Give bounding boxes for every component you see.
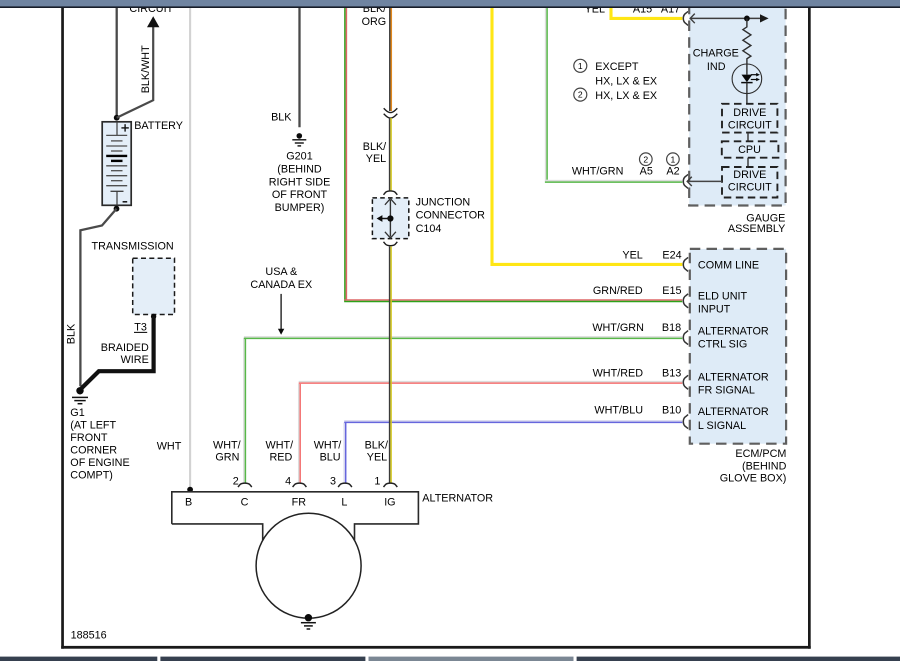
svg-text:BLU: BLU <box>320 452 341 464</box>
svg-text:DRIVE: DRIVE <box>733 169 766 181</box>
connector arc above C104 <box>384 191 398 195</box>
label GAUGE ASSEMBLY <box>728 213 785 235</box>
label WHT/RED B13 <box>593 367 682 379</box>
wire BLK to G201 <box>298 8 300 127</box>
pin arc L (3) <box>338 483 352 487</box>
frame bottom border <box>61 646 811 649</box>
top browser bar <box>0 0 900 8</box>
node junction dot at battery positive <box>114 115 120 121</box>
transmission box <box>133 258 175 314</box>
connector arc E24 <box>683 257 688 271</box>
pin arc FR (4) <box>293 483 307 487</box>
svg-text:2: 2 <box>578 90 583 100</box>
svg-text:2: 2 <box>643 154 648 164</box>
svg-text:(BEHIND: (BEHIND <box>277 164 322 176</box>
svg-text:CIRCUIT: CIRCUIT <box>728 181 772 193</box>
svg-text:GLOVE BOX): GLOVE BOX) <box>720 473 787 485</box>
svg-text:BLK: BLK <box>66 323 78 344</box>
svg-text:ASSEMBLY: ASSEMBLY <box>728 223 785 235</box>
frame left border <box>61 8 64 649</box>
svg-text:ECM/PCM: ECM/PCM <box>735 448 786 460</box>
svg-text:FRONT: FRONT <box>70 432 108 444</box>
pin arc IG (1) <box>384 483 398 487</box>
svg-text:GRN: GRN <box>215 452 239 464</box>
wire BLK/YEL lower segment to alternator IG <box>390 246 392 483</box>
pin arc C (2) <box>238 483 252 487</box>
label T3 <box>134 322 147 334</box>
wire BLK/WHT branch to starter circuit <box>117 27 154 118</box>
battery <box>102 122 131 206</box>
ECM pin function labels <box>698 259 769 432</box>
svg-text:T3: T3 <box>134 322 147 334</box>
svg-text:FR SIGNAL: FR SIGNAL <box>698 384 755 396</box>
svg-text:YEL: YEL <box>366 153 386 165</box>
drive circuit box upper <box>722 104 777 133</box>
ECM/PCM box <box>690 249 786 444</box>
wire cpu to drive2 <box>747 158 749 167</box>
svg-text:OF FRONT: OF FRONT <box>272 189 328 201</box>
node T3 dot <box>151 314 156 319</box>
label WHT <box>157 440 182 452</box>
label JUNCTION CONNECTOR C104 <box>416 197 486 235</box>
svg-text:B13: B13 <box>662 367 681 379</box>
wire WHT/BLU alternator L to B10 <box>344 421 682 483</box>
wire BLK from battery negative to G1 <box>80 209 116 387</box>
alternator body <box>172 492 419 619</box>
ground G1 <box>72 387 88 404</box>
svg-text:HX, LX & EX: HX, LX & EX <box>595 75 657 87</box>
label diagram number 188516 <box>71 630 107 642</box>
svg-text:IG: IG <box>384 496 395 508</box>
svg-text:B18: B18 <box>662 322 681 334</box>
svg-text:HX, LX & EX: HX, LX & EX <box>595 90 657 102</box>
connector arc below C104 <box>384 242 398 246</box>
wire BLK/YEL upper segment <box>390 118 392 190</box>
svg-text:(BEHIND: (BEHIND <box>742 460 787 472</box>
label BLK/YEL <box>363 141 386 165</box>
svg-text:RED: RED <box>270 452 293 464</box>
svg-text:B: B <box>185 496 192 508</box>
label BLK rotated <box>66 323 78 344</box>
labels above alternator pins <box>213 439 388 463</box>
svg-text:1: 1 <box>374 475 380 487</box>
svg-text:IND: IND <box>707 61 726 73</box>
svg-text:BLK/: BLK/ <box>363 141 386 153</box>
label YEL / E24 <box>622 249 681 261</box>
svg-text:L SIGNAL: L SIGNAL <box>698 420 746 432</box>
svg-text:L: L <box>341 496 347 508</box>
svg-text:G201: G201 <box>286 151 312 163</box>
svg-text:TRANSMISSION: TRANSMISSION <box>92 240 174 252</box>
wire YEL stub to A15/A17 <box>611 8 682 19</box>
cpu box <box>722 141 779 157</box>
LED charge indicator <box>732 64 762 104</box>
braided wire T3 to G1 <box>81 317 154 389</box>
svg-text:CHARGE: CHARGE <box>693 48 739 60</box>
wire WHT vertical to alternator B <box>189 8 191 489</box>
frame right border <box>808 8 811 649</box>
svg-text:WHT/RED: WHT/RED <box>593 367 644 379</box>
svg-text:INPUT: INPUT <box>698 303 731 315</box>
svg-text:WHT/GRN: WHT/GRN <box>592 322 644 334</box>
note 1 EXCEPT HX, LX & EX <box>574 59 657 87</box>
label CIRCUIT (cut off at top) <box>129 3 173 15</box>
svg-text:2: 2 <box>233 475 239 487</box>
labels YEL A15 A17 (cut at top) <box>585 3 681 15</box>
svg-text:CORNER: CORNER <box>70 445 117 457</box>
label G201 (BEHIND RIGHT SIDE OF FRONT BUMPER) <box>269 151 331 214</box>
gauge assembly box <box>689 5 785 206</box>
svg-text:WIRE: WIRE <box>121 354 149 366</box>
connector arc B10 <box>683 415 688 429</box>
wire drive1 to cpu <box>747 133 749 142</box>
svg-text:WHT/: WHT/ <box>266 439 294 451</box>
svg-text:FR: FR <box>292 496 307 508</box>
svg-text:WHT/BLU: WHT/BLU <box>594 405 643 417</box>
svg-text:G1: G1 <box>70 407 84 419</box>
svg-text:WHT/GRN: WHT/GRN <box>572 166 624 178</box>
connector arc E15 <box>683 294 688 308</box>
svg-text:C: C <box>241 496 249 508</box>
svg-text:YEL: YEL <box>367 452 387 464</box>
label WHT/GRN B18 <box>592 322 681 334</box>
circled 1 above A2 <box>667 153 680 166</box>
label BLK <box>271 111 292 123</box>
svg-text:ELD UNIT: ELD UNIT <box>698 290 748 302</box>
svg-text:OF ENGINE: OF ENGINE <box>70 457 129 469</box>
wire BLK/ORG from top <box>390 8 392 111</box>
svg-text:3: 3 <box>330 475 336 487</box>
bottom taskbar blocks <box>0 657 900 661</box>
wire GRN/RED vertical <box>345 8 347 302</box>
svg-text:CTRL SIG: CTRL SIG <box>698 338 747 350</box>
svg-text:ORG: ORG <box>362 16 387 28</box>
svg-text:BUMPER): BUMPER) <box>275 202 325 214</box>
svg-text:4: 4 <box>285 475 291 487</box>
wire WHT/RED alternator FR to B13 <box>299 382 683 483</box>
wire WHT/GRN alternator C to B18 <box>244 337 682 483</box>
note 2 HX, LX & EX <box>574 88 657 102</box>
svg-text:GRN/RED: GRN/RED <box>593 285 643 297</box>
svg-text:USA &: USA & <box>265 266 298 278</box>
label BLK/WHT rotated <box>140 45 152 93</box>
svg-text:CIRCUIT: CIRCUIT <box>728 120 772 132</box>
svg-text:BLK/WHT: BLK/WHT <box>140 45 152 93</box>
node dot on gauge rail <box>744 16 750 22</box>
svg-text:188516: 188516 <box>71 630 107 642</box>
svg-text:DRIVE: DRIVE <box>733 107 766 119</box>
drive circuit box lower <box>722 167 777 198</box>
label BATTERY <box>134 120 183 132</box>
svg-text:BLK: BLK <box>271 111 292 123</box>
svg-text:RIGHT SIDE: RIGHT SIDE <box>269 177 331 189</box>
svg-text:E15: E15 <box>662 285 681 297</box>
alternator case ground <box>301 614 316 629</box>
label TRANSMISSION <box>92 240 174 252</box>
svg-text:CANADA EX: CANADA EX <box>250 279 312 291</box>
svg-text:COMM LINE: COMM LINE <box>698 259 759 271</box>
ground G201 <box>292 133 306 146</box>
svg-text:YEL: YEL <box>622 249 642 261</box>
svg-text:EXCEPT: EXCEPT <box>595 61 639 73</box>
wire YEL to E24 <box>492 8 682 265</box>
svg-text:ALTERNATOR: ALTERNATOR <box>698 406 769 418</box>
label BLK/ORG (cut at top) <box>362 3 387 28</box>
svg-text:COMPT): COMPT) <box>70 470 113 482</box>
connector arc A2 <box>683 174 688 188</box>
wire break symbol <box>384 108 398 118</box>
svg-text:E24: E24 <box>662 249 681 261</box>
circled 2 above A5 <box>640 153 653 166</box>
label WHT/GRN A5 A2 <box>572 166 680 178</box>
label ALTERNATOR <box>422 493 493 505</box>
resistor (charge indicator feed) <box>743 18 751 64</box>
wire A2 arc into lower drive circuit <box>687 177 722 186</box>
svg-text:BRAIDED: BRAIDED <box>101 342 149 354</box>
arrowhead to circuit above <box>147 16 159 27</box>
svg-text:ALTERNATOR: ALTERNATOR <box>698 371 769 383</box>
svg-text:(AT LEFT: (AT LEFT <box>70 420 116 432</box>
label BRAIDED WIRE <box>101 342 149 366</box>
node junction dot at battery negative <box>114 206 120 212</box>
label USA & CANADA EX with arrow <box>250 266 312 335</box>
wire GRN/RED horizontal to E15 <box>344 300 682 302</box>
junction connector C104 <box>372 198 408 239</box>
svg-text:A2: A2 <box>666 166 679 178</box>
node junction dot at alternator B <box>187 487 193 493</box>
svg-text:BLK/: BLK/ <box>365 439 388 451</box>
label G1 (AT LEFT FRONT CORNER OF ENGINE COMPT) <box>70 407 129 482</box>
svg-text:WHT/: WHT/ <box>213 439 241 451</box>
svg-text:ALTERNATOR: ALTERNATOR <box>698 325 769 337</box>
svg-text:CONNECTOR: CONNECTOR <box>416 210 486 222</box>
gauge internal top rail with arrows <box>690 14 768 24</box>
pin numbers 2 4 3 1 <box>233 475 381 487</box>
svg-text:1: 1 <box>578 61 583 71</box>
svg-text:JUNCTION: JUNCTION <box>416 197 471 209</box>
svg-text:CPU: CPU <box>738 144 761 156</box>
svg-text:A5: A5 <box>640 166 653 178</box>
svg-text:WHT: WHT <box>157 440 182 452</box>
svg-text:ALTERNATOR: ALTERNATOR <box>422 493 493 505</box>
svg-text:B10: B10 <box>662 405 681 417</box>
connector arc B18 <box>683 331 688 345</box>
svg-text:BATTERY: BATTERY <box>134 120 183 132</box>
wire battery feed BLK/WHT vertical from top <box>116 8 118 118</box>
label WHT/BLU B10 <box>594 405 681 417</box>
wire WHT/GRN to gauge A2 <box>545 8 682 182</box>
alternator terminal letters <box>185 496 396 508</box>
svg-text:C104: C104 <box>416 223 442 235</box>
label GRN/RED E15 <box>593 285 682 297</box>
svg-text:1: 1 <box>671 154 676 164</box>
svg-text:WHT/: WHT/ <box>314 439 342 451</box>
connector arc B13 <box>683 375 688 389</box>
connector arc A17 <box>683 11 688 25</box>
label CHARGE IND <box>693 48 739 73</box>
label ECM/PCM (BEHIND GLOVE BOX) <box>720 448 787 484</box>
